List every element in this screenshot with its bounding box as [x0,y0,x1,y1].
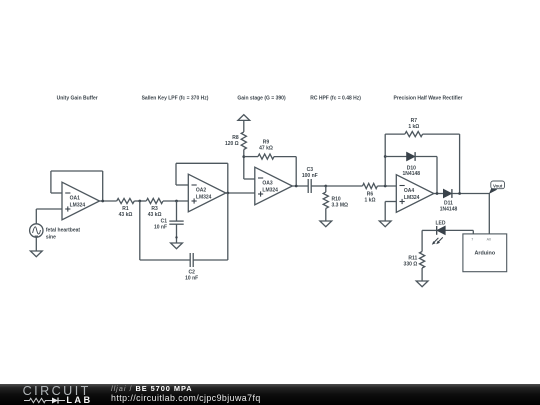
wire R9 down to OA3 output [295,157,297,186]
wire R6 to OA4 - [377,185,396,187]
wire LED left [422,229,437,231]
svg-text:1 kΩ: 1 kΩ [365,198,376,204]
wire R11 to ground [421,268,423,281]
svg-text:Sallen Key LPF (fc = 370 Hz): Sallen Key LPF (fc = 370 Hz) [142,96,209,102]
wire C2 right horizontal [193,259,228,261]
LED emission arrows [432,237,443,244]
svg-text:LM324: LM324 [262,188,278,194]
svg-text:OA3: OA3 [262,181,273,187]
Arduino U1 [463,234,507,272]
svg-text:43 kΩ: 43 kΩ [119,212,133,218]
wire C2 left vertical [139,201,141,260]
svg-text:A0: A0 [487,237,491,241]
svg-text:120 Ω: 120 Ω [225,141,239,147]
node OA1 output junction [101,200,104,203]
diode D11 1N4148 [443,189,452,198]
svg-text:1N4148: 1N4148 [403,171,421,177]
node R8/R9 junction [242,155,245,158]
wire to R7 [385,133,405,135]
svg-text:Arduino: Arduino [474,251,495,257]
resistor R7 [405,132,423,137]
diode D10 1N4148 [407,152,416,161]
resistor R8 [241,132,246,150]
LED D1 [437,226,446,235]
op-amp OA1 LM324 [62,182,100,220]
wire OA2 output to OA3 + [226,192,255,194]
node C1 tap [175,200,178,203]
wire OA4 + to ground [384,202,386,222]
wire C1 top [176,201,178,221]
svg-text:1 kΩ: 1 kΩ [408,124,419,130]
wire OA1 feedback to - input [51,192,62,194]
wire C2 left horizontal [140,259,190,261]
svg-text:OA4: OA4 [404,188,415,194]
svg-text:1N4148: 1N4148 [440,206,458,212]
wire R1 to R3 [134,200,146,202]
svg-text:10 nF: 10 nF [154,224,167,230]
ground (OA4 +) [379,221,391,227]
wire R8 to OA3 - branch [243,150,245,180]
svg-text:LM324: LM324 [196,195,212,201]
resistor R1 [117,198,135,203]
source V1 fetal heartbeat sine [30,224,43,237]
resistor R10 [323,192,328,208]
resistor R11 [420,252,425,269]
wire OA4 output to D11 [434,193,444,195]
wire OA2 feedback top [176,162,228,164]
svg-text:fetal heartbeat: fetal heartbeat [46,228,81,234]
wire down into pin 7 [472,230,474,234]
svg-text:Vout: Vout [493,183,503,188]
svg-text:10 nF: 10 nF [185,275,198,281]
svg-text:OA2: OA2 [196,188,207,194]
svg-text:sine: sine [46,235,56,241]
wire C2 right vertical [227,193,229,260]
node OA2 output junction [226,192,229,195]
svg-text:Gain stage (G = 390): Gain stage (G = 390) [237,96,286,102]
capacitor C1 [169,221,183,224]
wire R7 to right vertical [423,133,460,135]
ground (R8, flipped) [238,115,250,121]
ground (R11) [416,281,428,287]
wire OA1 output [100,200,117,202]
wire D10 to right vertical [415,156,437,158]
node OA3 output junction [295,185,298,188]
wire junction to R10 [325,186,327,192]
svg-text:OA1: OA1 [70,196,81,202]
wire R8 junction to R9 [244,156,258,158]
wire source top [35,209,37,224]
ground (R10) [320,221,332,227]
wire OA2 feedback to - input [176,184,188,186]
wire D10 down to OA4 output [436,157,438,194]
node D10 tap [384,155,387,158]
wire OA1 feedback left vertical [50,171,52,193]
capacitor C3 [308,179,311,193]
resistor R6 [363,183,378,188]
wire LED to Arduino pin 7 [445,229,473,231]
node R7 feedback junction [458,192,461,195]
svg-text:LED: LED [436,221,446,227]
svg-text:43 kΩ: 43 kΩ [148,212,162,218]
svg-text:47 kΩ: 47 kΩ [259,146,273,152]
wire junction to R6 [326,185,363,187]
op-amp OA4 LM324 [396,175,434,213]
wire C3 to R10 junction [311,185,326,187]
svg-text:LM324: LM324 [70,203,86,209]
svg-text:330 Ω: 330 Ω [404,261,418,267]
ground (source) [30,251,42,257]
wire to D10 [385,156,406,158]
svg-text:3.3 MΩ: 3.3 MΩ [332,203,349,209]
capacitor C2 [190,253,193,267]
wire OA2 feedback right vertical [227,163,229,193]
wire LED to R11 [421,230,423,251]
node OA4 - junction [384,185,387,188]
svg-text:RC HPF (fc = 0.48 Hz): RC HPF (fc = 0.48 Hz) [310,96,361,102]
wire source to OA1 + [36,208,62,210]
wire R7 down to output [459,134,461,193]
svg-text:LM324: LM324 [404,195,420,201]
wire OA1 feedback top [51,170,103,172]
wire - junction up to R7 [384,134,386,186]
op-amp OA2 LM324 [188,174,226,212]
wire source bottom [35,237,37,251]
svg-text:100 nF: 100 nF [302,173,318,179]
ground (C1) [171,243,183,249]
CircuitLab logo [23,384,123,405]
node C3/R10 junction [324,185,327,188]
svg-text:7: 7 [471,237,473,241]
wire D11 to Vout corner [452,193,489,195]
wire Vout to Arduino A0 [488,194,490,234]
wire R10 to ground [325,208,327,221]
wire to OA3 - input [244,178,255,180]
node OA4 output junction [436,192,439,195]
resistor R9 [258,154,274,159]
op-amp OA3 LM324 [255,167,292,205]
wire OA1 feedback right vertical [102,171,104,201]
node C1-ground [175,236,177,238]
svg-text:Precision Half Wave Rectifier: Precision Half Wave Rectifier [393,96,462,102]
node R1/R3 junction [138,200,141,203]
wire gnd to R8 [243,120,245,131]
Vout flag [489,181,504,194]
wire R3 to OA2 + [163,200,188,202]
resistor R3 [146,198,163,203]
wire OA3 output to C3 [292,185,308,187]
wire R9 to right vertical [274,156,296,158]
wire C1 bottom [176,224,178,243]
wire OA2 feedback left vertical [175,163,177,185]
svg-text:Unity Gain Buffer: Unity Gain Buffer [57,96,98,102]
wire OA4 + stub [385,201,396,203]
